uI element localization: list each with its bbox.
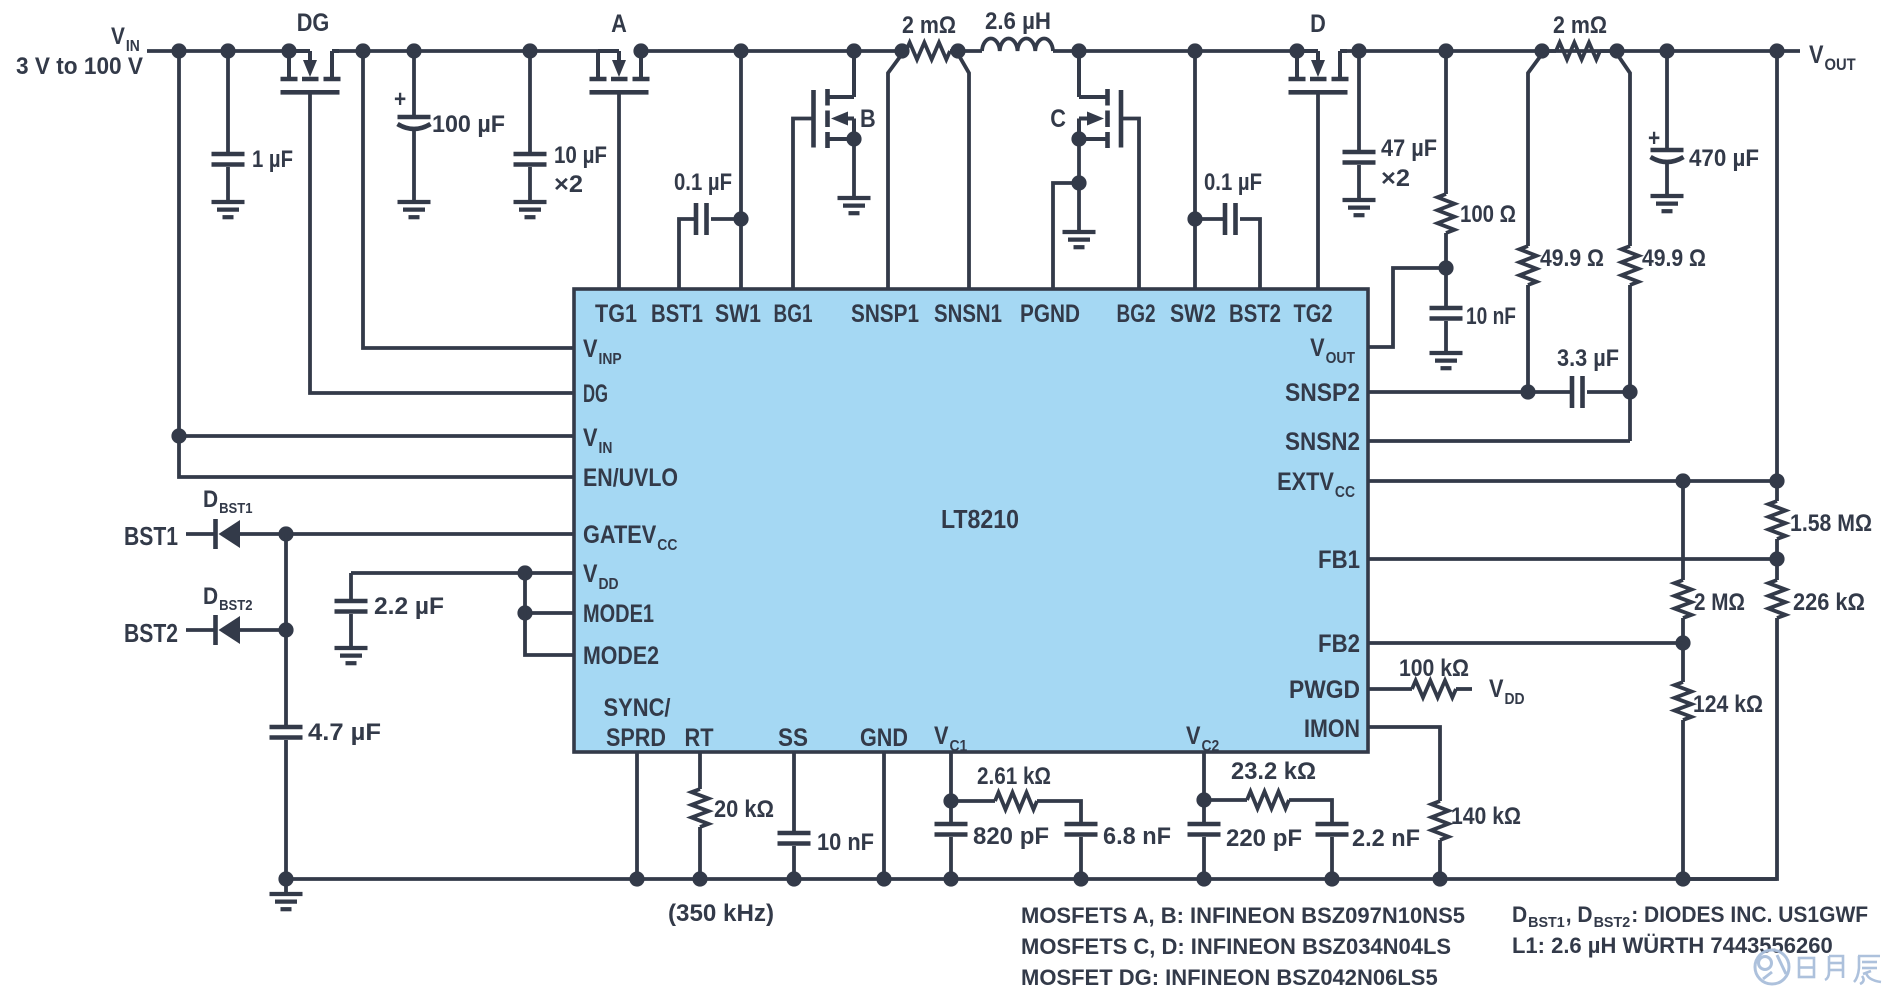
svg-text:FB2: FB2 — [1318, 630, 1360, 658]
svg-text:IMON: IMON — [1304, 715, 1360, 743]
wire 6.8nF to ground bus — [1079, 837, 1083, 879]
svg-text:D: D — [1310, 10, 1326, 38]
wire SW1 branch — [739, 51, 743, 289]
node EXTVCC / 2M junction — [1675, 473, 1690, 488]
resistor 49.9 Ohm (left) — [1520, 246, 1537, 285]
resistor 124 kOhm — [1675, 682, 1692, 720]
resistor 2 MOhm — [1675, 580, 1692, 618]
wire 226k to ground bus — [1683, 618, 1777, 879]
resistor 2 mOhm current sense (left) — [906, 43, 950, 60]
svg-text:LT8210: LT8210 — [941, 504, 1019, 534]
node DBST2 junction — [278, 622, 293, 637]
wire 47uF top — [1357, 51, 1361, 150]
node SNSN1 — [950, 43, 965, 58]
svg-text:MODE2: MODE2 — [583, 642, 659, 670]
ground MOSFET C source — [1063, 232, 1096, 247]
node VDD / MODE junction — [517, 565, 532, 580]
svg-text:SPRD: SPRD — [606, 724, 666, 752]
node SW2 rail junction — [1187, 43, 1202, 58]
wire 23.2k to 2.2nF — [1289, 800, 1332, 822]
node VOUT pin / 10nF junction — [1438, 260, 1453, 275]
svg-text:BG1: BG1 — [774, 300, 813, 328]
wire BG1 gate wire — [793, 119, 813, 290]
wire SS cap to ground bus — [792, 846, 796, 879]
svg-text:C: C — [1050, 105, 1066, 133]
transistor A (buck top switch) — [590, 51, 650, 92]
node MOSFET D rail junction — [1289, 43, 1304, 58]
svg-text:DG: DG — [297, 9, 330, 37]
svg-text:TG2: TG2 — [1294, 300, 1333, 328]
svg-text:0.1 µF: 0.1 µF — [674, 169, 732, 196]
wire VINP branch — [363, 51, 574, 348]
svg-text:2 mΩ: 2 mΩ — [902, 12, 956, 39]
wire right 2mOhm leads — [1542, 49, 1617, 53]
svg-text:EXTV: EXTV — [1277, 468, 1334, 496]
svg-text:SNSN2: SNSN2 — [1285, 428, 1360, 456]
node V_IN rail / EN branch junction — [171, 43, 186, 58]
node MOSFET A drain — [633, 43, 648, 58]
svg-text:470 µF: 470 µF — [1689, 145, 1759, 172]
svg-text:DD: DD — [599, 576, 619, 593]
node 6.8nF ground junction — [1073, 871, 1088, 886]
wire VOUT down to EXTVCC row — [1775, 51, 1779, 501]
capacitor 0.1uF (BST1) — [696, 203, 707, 235]
ground MOSFET B source — [838, 198, 871, 213]
node GATEVCC / DBST1 junction — [278, 526, 293, 541]
svg-text:MODE1: MODE1 — [583, 600, 654, 628]
ground 100uF — [398, 202, 431, 217]
wire TG1 gate wire — [617, 94, 621, 289]
wire VIN pin row — [179, 434, 574, 438]
svg-text:CC: CC — [1335, 484, 1355, 501]
svg-text:SNSP2: SNSP2 — [1285, 379, 1360, 407]
svg-text:MOSFET DG: INFINEON BSZ042N06L: MOSFET DG: INFINEON BSZ042N06LS5 — [1021, 965, 1438, 990]
wire 0.1uF to SW1 — [711, 217, 741, 221]
node SW1/0.1uF junction — [733, 211, 748, 226]
transistor B (buck bottom switch) — [814, 51, 855, 148]
wire RT pin down — [698, 752, 702, 789]
svg-text:BST1: BST1 — [651, 300, 703, 328]
wire SYNC/SPRD to ground bus — [635, 752, 639, 879]
wire rail MOSFET A to sense resistor — [641, 49, 902, 53]
svg-text:124 kΩ: 124 kΩ — [1693, 691, 1763, 718]
node SS ground junction — [786, 871, 801, 886]
wire FB1 row — [1368, 557, 1777, 561]
node EXTVCC / VOUT junction — [1769, 473, 1784, 488]
node MOSFET B source — [846, 131, 861, 146]
capacitor 6.8nF — [1065, 824, 1098, 835]
svg-text:2.61 kΩ: 2.61 kΩ — [977, 763, 1051, 790]
svg-text:RT: RT — [685, 724, 714, 752]
svg-text:BST1: BST1 — [1528, 914, 1565, 931]
transistor C (boost bottom switch) — [1079, 51, 1121, 148]
wire SW2 to 0.1uF — [1195, 217, 1225, 221]
wire rail MOSFET D to VOUT — [1340, 49, 1800, 53]
svg-text:47 µF: 47 µF — [1381, 135, 1437, 162]
wire 100uF bottom — [412, 130, 416, 202]
IC U1 LT8210 body — [574, 289, 1368, 752]
svg-text:+: + — [394, 86, 406, 113]
wire GND pin down — [882, 752, 886, 879]
capacitor 820pF — [935, 824, 968, 835]
svg-text:10 nF: 10 nF — [817, 829, 874, 856]
wire 10nF to ground — [1444, 321, 1448, 353]
svg-text:1 µF: 1 µF — [252, 146, 293, 173]
wire 2M to FB2 — [1681, 618, 1685, 682]
node 100 Ohm rail junction — [1438, 43, 1453, 58]
capacitor 2.2uF — [335, 601, 368, 612]
wire SNSP2 row — [1368, 390, 1572, 394]
node 124k ground junction — [1675, 871, 1690, 886]
wire MODE1 row — [525, 611, 574, 615]
svg-text:×2: ×2 — [554, 171, 583, 198]
svg-text:BST1: BST1 — [124, 521, 178, 551]
svg-text:V: V — [583, 424, 598, 452]
node GND pin ground junction — [876, 871, 891, 886]
svg-text:4.7 µF: 4.7 µF — [308, 719, 381, 746]
watermark characters — [1799, 956, 1881, 984]
wire BST1 to diode — [186, 532, 214, 536]
svg-text:D: D — [1512, 902, 1527, 927]
resistor 23.2 kOhm — [1247, 792, 1289, 809]
wire EXTVCC to 2M — [1681, 481, 1685, 580]
wire DG gate to DG pin — [310, 94, 574, 393]
diode DBST2 — [216, 615, 241, 645]
svg-text:BST2: BST2 — [219, 597, 252, 614]
svg-text:(350 kHz): (350 kHz) — [668, 900, 774, 927]
svg-text:BST1: BST1 — [219, 500, 252, 517]
wire 2mOhm left lead — [950, 49, 958, 53]
resistor 226 kOhm — [1769, 580, 1786, 618]
svg-text:V: V — [934, 722, 949, 750]
node SNSN2 rail — [1609, 43, 1624, 58]
wire MOSFET C source down — [1077, 139, 1081, 232]
wire FB2 row — [1368, 641, 1683, 645]
svg-text:A: A — [611, 10, 627, 38]
svg-text:IN: IN — [599, 440, 613, 457]
ground 47uF — [1343, 200, 1376, 215]
wire 1.58M to FB1 — [1775, 539, 1779, 580]
node ground bus left end — [278, 871, 293, 886]
wire 4.7uF to ground bus — [284, 740, 288, 879]
svg-text:CC: CC — [657, 537, 677, 554]
node VC2 branch junction — [1196, 792, 1211, 807]
svg-text:BG2: BG2 — [1117, 300, 1156, 328]
wire 2.61k to 6.8nF — [1037, 801, 1081, 822]
svg-text:2.2 nF: 2.2 nF — [1352, 825, 1420, 852]
svg-text:, D: , D — [1566, 902, 1593, 927]
wire V_IN input rail — [147, 49, 289, 53]
svg-text:SYNC/: SYNC/ — [604, 694, 671, 722]
svg-text:DD: DD — [1505, 691, 1525, 708]
node SNSP2 / 49.9 junction — [1520, 384, 1535, 399]
node VIN/EN junction — [171, 428, 186, 443]
wire 2.2nF to ground bus — [1330, 837, 1334, 879]
wire rail SNSN1 to inductor — [958, 49, 982, 53]
svg-text:820 pF: 820 pF — [973, 823, 1049, 850]
wire 20k to ground bus — [698, 827, 702, 879]
svg-text:BST2: BST2 — [124, 618, 178, 648]
wire 10uF bottom — [528, 167, 532, 202]
ground 10uF — [514, 202, 547, 217]
svg-text:1.58 MΩ: 1.58 MΩ — [1790, 510, 1872, 537]
wire ground bus — [286, 877, 1777, 881]
svg-text:49.9 Ω: 49.9 Ω — [1540, 245, 1604, 272]
svg-text:+: + — [1648, 125, 1660, 152]
watermark logo circle — [1755, 950, 1789, 984]
wire MOSFET B source to ground — [852, 139, 856, 198]
ground main — [270, 894, 303, 909]
svg-text:GND: GND — [860, 724, 908, 752]
svg-text:TG1: TG1 — [595, 300, 637, 328]
svg-text:23.2 kΩ: 23.2 kΩ — [1231, 758, 1316, 785]
diode DBST1 — [216, 519, 241, 549]
wire 100 Ohm top — [1444, 51, 1448, 194]
wire 1uF bottom — [226, 167, 230, 202]
node RT ground junction — [692, 871, 707, 886]
node SNSP2 rail — [1534, 43, 1549, 58]
svg-text:FB1: FB1 — [1318, 546, 1360, 574]
svg-text:MOSFETS A, B: INFINEON BSZ097N: MOSFETS A, B: INFINEON BSZ097N10NS5 — [1021, 903, 1465, 928]
svg-text:DG: DG — [583, 380, 608, 408]
wire 0.1uF to BST2 pin — [1240, 219, 1260, 289]
node VC1 branch junction — [943, 793, 958, 808]
svg-text:SNSP1: SNSP1 — [851, 300, 919, 328]
wire 100uF top — [412, 51, 416, 115]
svg-text:226 kΩ: 226 kΩ — [1793, 589, 1865, 616]
wire SW2 branch — [1193, 51, 1197, 289]
svg-text:SW1: SW1 — [715, 300, 761, 328]
capacitor 0.1uF (BST2) — [1225, 203, 1236, 235]
ground 10nF — [1430, 353, 1463, 368]
node VOUT terminal junction — [1769, 43, 1784, 58]
wire V_IN branch down to VIN/EN pins — [179, 51, 574, 477]
node FB1 junction — [1769, 551, 1784, 566]
node 2.2nF ground junction — [1324, 871, 1339, 886]
svg-text:EN/UVLO: EN/UVLO — [583, 464, 678, 492]
wire VC1 to 2.61k — [951, 799, 995, 803]
wire 820pF to ground bus — [949, 837, 953, 879]
ground 2.2uF — [335, 648, 368, 663]
wire 49.9 Ohm left bottom — [1526, 285, 1530, 392]
wire DBST1 to GATEVCC — [240, 532, 574, 536]
wire rail inductor to MOSFET D — [1053, 49, 1297, 53]
wire MODE2 row — [525, 573, 574, 655]
ground 1uF — [212, 202, 245, 217]
node 220pF ground junction — [1196, 871, 1211, 886]
node DG MOSFET source — [281, 43, 296, 58]
node SNSN2 / 3.3uF junction — [1622, 384, 1637, 399]
svg-text:BST2: BST2 — [1229, 300, 1281, 328]
capacitor 2.2nF — [1316, 824, 1349, 835]
svg-text:×2: ×2 — [1381, 165, 1410, 192]
svg-text:V: V — [583, 335, 598, 363]
wire 100 Ohm bottom — [1444, 233, 1448, 306]
svg-text:20 kΩ: 20 kΩ — [714, 796, 774, 823]
svg-text:BST2: BST2 — [1594, 914, 1631, 931]
svg-text:V: V — [1186, 722, 1201, 750]
svg-text:: DIODES INC. US1GWF: : DIODES INC. US1GWF — [1631, 902, 1868, 927]
wire 49.9 Ohm right bottom — [1628, 285, 1632, 441]
resistor 49.9 Ohm (right) — [1622, 246, 1639, 285]
svg-text:SS: SS — [778, 724, 808, 752]
wire SNSN2 row — [1368, 439, 1630, 443]
resistor 100 Ohm — [1438, 194, 1455, 233]
inductor L1 2.6uH — [982, 39, 1053, 51]
wire 470uF bottom — [1665, 163, 1669, 196]
wire VC1 pin down — [949, 752, 953, 822]
wire PWGD row — [1368, 687, 1412, 691]
ground 470uF — [1651, 196, 1684, 211]
wire VC2 pin down — [1202, 752, 1206, 822]
wire 140k to ground bus — [1438, 840, 1442, 879]
wire 2.2uF bottom — [349, 614, 353, 648]
svg-text:V: V — [1489, 675, 1504, 703]
resistor 140 kOhm — [1432, 801, 1449, 840]
svg-text:100 µF: 100 µF — [432, 111, 505, 138]
wire 1uF top — [226, 51, 230, 152]
svg-text:2 MΩ: 2 MΩ — [1694, 589, 1745, 616]
capacitor 4.7uF — [270, 727, 303, 738]
wire SNSP1 to pin — [888, 54, 902, 289]
svg-text:GATEV: GATEV — [583, 521, 657, 549]
node SYNC ground junction — [629, 871, 644, 886]
svg-text:SNSN1: SNSN1 — [934, 300, 1002, 328]
node 470uF junction — [1659, 43, 1674, 58]
wire PGND pin connection — [1053, 183, 1079, 289]
wire 124k to ground bus — [1681, 720, 1685, 879]
svg-text:2 mΩ: 2 mΩ — [1553, 12, 1607, 39]
node SNSP1 — [894, 43, 909, 58]
wire 10uF top — [528, 51, 532, 152]
capacitor 10nF (VOUT filter) — [1430, 308, 1463, 319]
svg-text:INP: INP — [599, 351, 622, 368]
svg-text:D: D — [203, 486, 218, 513]
svg-text:V: V — [1809, 41, 1824, 69]
capacitor 10uF x2 — [514, 154, 547, 165]
node MOSFET C source — [1071, 131, 1086, 146]
wire 49.9 Ohm right top — [1617, 54, 1630, 246]
svg-text:140 kΩ: 140 kΩ — [1451, 803, 1521, 830]
svg-text:OUT: OUT — [1326, 350, 1356, 367]
node MOSFET B drain rail junction — [846, 43, 861, 58]
node C source / PGND junction — [1071, 175, 1086, 190]
node SW2/0.1uF junction — [1187, 211, 1202, 226]
svg-text:V: V — [583, 560, 598, 588]
resistor 2 mOhm current sense (right) — [1556, 43, 1600, 60]
wire GATEVCC vertical to 4.7uF — [284, 534, 288, 725]
wire SNSN1 to pin — [958, 54, 969, 289]
wire BST1 pin to 0.1uF — [679, 219, 696, 289]
capacitor 10nF (SS) — [778, 833, 811, 844]
wire 470uF top — [1665, 51, 1669, 148]
capacitor 220pF — [1188, 824, 1221, 835]
wire VOUT pin routing — [1368, 268, 1446, 347]
svg-text:OUT: OUT — [1825, 55, 1857, 74]
wire 100k to VDD label — [1456, 687, 1472, 691]
svg-text:2.6 µH: 2.6 µH — [985, 8, 1051, 35]
node SW1 rail junction — [733, 43, 748, 58]
capacitor 470uF (polarized) — [1651, 150, 1684, 162]
wire rail DG to MOSFET A — [332, 49, 598, 53]
node 820pF ground junction — [943, 871, 958, 886]
svg-text:2.2 µF: 2.2 µF — [374, 593, 444, 620]
wire VC2 to 23.2k — [1204, 798, 1247, 802]
node MOSFET C drain rail junction — [1071, 43, 1086, 58]
wire VDD row — [351, 571, 574, 575]
svg-text:PWGD: PWGD — [1289, 676, 1360, 704]
svg-text:3 V to 100 V: 3 V to 100 V — [16, 53, 143, 80]
svg-text:100 kΩ: 100 kΩ — [1399, 655, 1469, 682]
capacitor 100uF (polarized) — [398, 117, 431, 129]
wire IMON row — [1368, 727, 1440, 801]
node FB2 junction — [1675, 635, 1690, 650]
svg-text:V: V — [1310, 334, 1325, 362]
wire DBST2 to GATEVCC vertical — [240, 628, 286, 632]
svg-text:V: V — [111, 23, 125, 50]
node 1uF junction — [220, 43, 235, 58]
svg-text:49.9 Ω: 49.9 Ω — [1642, 245, 1706, 272]
svg-text:PGND: PGND — [1020, 300, 1080, 328]
wire BST2 to diode — [186, 628, 214, 632]
transistor DG (reverse-input-protection MOSFET) — [281, 51, 341, 92]
wire 220pF to ground bus — [1202, 837, 1206, 879]
wire TG2 gate wire — [1316, 94, 1320, 289]
wire 3.3uF to SNSN2 line — [1587, 390, 1630, 394]
node 100uF junction — [406, 43, 421, 58]
node MODE1 junction — [517, 605, 532, 620]
wire BG2 gate wire — [1121, 119, 1139, 290]
svg-text:MOSFETS C, D: INFINEON BSZ034N: MOSFETS C, D: INFINEON BSZ034N04LS — [1021, 934, 1451, 959]
svg-text:D: D — [203, 583, 218, 610]
resistor 20 kOhm (RT) — [692, 789, 709, 827]
node VINP rail junction — [355, 43, 370, 58]
node 10uF junction — [522, 43, 537, 58]
svg-text:220 pF: 220 pF — [1226, 825, 1302, 852]
capacitor 1uF — [212, 154, 245, 165]
node 47uF junction — [1351, 43, 1366, 58]
capacitor 3.3uF — [1572, 376, 1583, 408]
wire SS pin down — [792, 752, 796, 831]
svg-text:10 nF: 10 nF — [1466, 303, 1516, 330]
resistor 100 kOhm (PWGD pullup) — [1412, 681, 1456, 698]
capacitor 47uF x2 — [1343, 152, 1376, 163]
wire 47uF bottom — [1357, 165, 1361, 200]
svg-text:10 µF: 10 µF — [554, 142, 607, 169]
svg-text:B: B — [860, 105, 876, 133]
svg-text:100 Ω: 100 Ω — [1460, 201, 1516, 228]
resistor 1.58 MOhm — [1769, 501, 1786, 539]
svg-text:3.3 µF: 3.3 µF — [1557, 345, 1619, 372]
transistor D (boost top switch) — [1289, 51, 1349, 92]
wire ground stub — [284, 879, 288, 894]
resistor 2.61 kOhm — [995, 793, 1037, 810]
svg-text:SW2: SW2 — [1170, 300, 1216, 328]
svg-text:6.8 nF: 6.8 nF — [1103, 823, 1171, 850]
wire 2.2uF top — [349, 573, 353, 599]
wire EXTVCC row — [1368, 479, 1777, 483]
node 140k ground junction — [1432, 871, 1447, 886]
svg-text:0.1 µF: 0.1 µF — [1204, 169, 1262, 196]
wire 49.9 Ohm left top — [1528, 54, 1542, 246]
